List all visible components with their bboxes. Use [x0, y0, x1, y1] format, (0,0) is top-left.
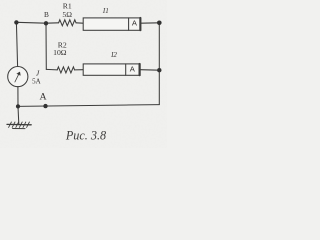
- svg-text:R1: R1: [63, 1, 72, 10]
- svg-text:A: A: [39, 91, 46, 102]
- wire ammeter to right rail: [141, 22, 159, 24]
- ground bar: [7, 123, 31, 125]
- wire node B to resistor R1: [46, 22, 59, 24]
- left rail wire upper: [16, 22, 17, 66]
- resistor R1: [59, 20, 76, 26]
- svg-text:5A: 5A: [32, 77, 41, 85]
- ground lower line: [13, 128, 25, 130]
- svg-text:5Ω: 5Ω: [62, 10, 72, 19]
- junction dot node A: [43, 104, 47, 108]
- wire top from left corner to node B: [16, 21, 46, 24]
- current source arrow: [15, 72, 20, 82]
- svg-text:I2: I2: [110, 51, 117, 59]
- ammeter I2 box: [83, 64, 140, 75]
- ground hatches: [9, 122, 30, 127]
- paper background: [0, 0, 167, 148]
- svg-text:Рис. 3.8: Рис. 3.8: [65, 129, 106, 143]
- resistor R2: [57, 67, 74, 73]
- ammeter I1 box: [83, 18, 141, 30]
- scan noise overlay: [0, 0, 167, 148]
- bottom wire: [18, 105, 159, 107]
- ground stem: [17, 106, 20, 124]
- current source J circle: [8, 67, 28, 87]
- branch 2 wire node B down: [45, 23, 47, 69]
- junction dot bottom-left: [16, 104, 20, 108]
- junction dot top-right: [157, 21, 162, 26]
- junction dot node B: [44, 21, 48, 25]
- right rail wire: [158, 23, 160, 105]
- junction dot top-left: [14, 20, 18, 24]
- svg-text:10Ω: 10Ω: [53, 48, 67, 57]
- wire corner to resistor R2: [46, 68, 57, 71]
- wire ammeter to right rail: [140, 69, 159, 72]
- left rail wire lower: [17, 87, 19, 107]
- wire R1 to ammeter box: [76, 22, 83, 24]
- wire R2 to ammeter box: [75, 69, 83, 71]
- svg-text:В: В: [44, 10, 49, 19]
- junction dot right mid: [157, 68, 161, 72]
- svg-text:I1: I1: [102, 7, 109, 15]
